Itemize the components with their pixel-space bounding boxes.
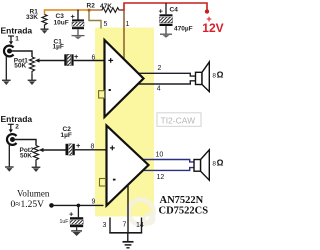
wire output pin 4	[137, 81, 196, 84]
svg-text:47K: 47K	[100, 3, 112, 10]
ground below volumen cap	[71, 227, 82, 236]
ground pot1	[28, 80, 37, 85]
wire volumen to pin 9	[52, 204, 104, 206]
U1b inverting dash	[113, 179, 116, 181]
Entrada 1 arrow	[8, 36, 14, 45]
svg-text:Entrada: Entrada	[1, 26, 33, 36]
wire C2 to pin 8	[75, 149, 107, 151]
svg-text:10: 10	[156, 152, 164, 159]
12V node dot	[205, 9, 209, 13]
U1b plus input mark	[110, 146, 115, 151]
op-amp U1a triangle	[105, 40, 144, 117]
wire output pin 10	[139, 160, 194, 162]
wire 12V red rail	[124, 3, 207, 11]
Pot1 lower stub	[31, 75, 33, 81]
resistor R1 33K zigzag	[42, 15, 47, 29]
wire jack2 to pot2	[13, 140, 37, 146]
wire output pin 2	[137, 73, 196, 76]
svg-text:+: +	[159, 7, 164, 16]
svg-text:12V: 12V	[202, 21, 223, 35]
capacitor C2 plates	[66, 144, 75, 155]
speaker SP1 driver rect	[196, 72, 203, 84]
svg-text:50K: 50K	[20, 153, 32, 160]
wire orange supply rail (R1 top to node)	[45, 10, 90, 15]
svg-text:R2: R2	[87, 3, 96, 10]
svg-text:5: 5	[104, 21, 108, 28]
svg-text:3: 3	[103, 222, 107, 229]
input jack J2	[7, 134, 17, 145]
resistor R2 47K zigzag	[101, 8, 121, 13]
Pot2 wiper arrow	[39, 148, 66, 152]
U1a inverting dot	[109, 89, 111, 91]
capacitor C3 plates	[72, 19, 84, 29]
svg-text:AN7522N: AN7522N	[160, 195, 204, 206]
U1a plus input mark	[108, 58, 113, 63]
junction node supply	[88, 9, 91, 12]
ground below C4	[160, 26, 172, 38]
svg-text:1µF: 1µF	[53, 44, 64, 51]
svg-text:CD7522CS: CD7522CS	[159, 206, 209, 217]
capacitor C4 plates	[160, 14, 173, 26]
svg-text:470µF: 470µF	[174, 26, 193, 33]
capacitor C1 plates	[64, 54, 73, 65]
svg-text:10uF: 10uF	[54, 20, 69, 27]
svg-text:1: 1	[15, 35, 19, 42]
svg-text:+: +	[74, 52, 79, 61]
svg-text:9: 9	[92, 199, 96, 206]
watermark circle logo	[129, 200, 155, 225]
wire output pin 12	[139, 168, 194, 171]
svg-text:8: 8	[91, 144, 95, 151]
op-amp U1b triangle	[107, 126, 149, 206]
svg-text:33K: 33K	[26, 14, 38, 21]
svg-text:+: +	[76, 141, 81, 150]
IC body AN7522N yellow block	[95, 28, 154, 217]
svg-text:Entrada: Entrada	[1, 114, 33, 124]
speaker SP1 cone	[202, 62, 209, 92]
svg-text:7: 7	[123, 222, 127, 229]
Pot1 wiper arrow	[35, 58, 65, 62]
svg-text:4: 4	[157, 86, 161, 93]
speaker SP2 driver rect	[194, 160, 201, 172]
capacitor C4 stub	[165, 3, 167, 14]
wire C1 to pin 6	[74, 60, 105, 62]
svg-text:2: 2	[158, 65, 162, 72]
capacitor C3 stub	[77, 10, 79, 20]
jack2 shell ground wire	[8, 144, 10, 167]
wire pin 5 jog (olive)	[89, 10, 101, 29]
svg-text:1: 1	[126, 21, 130, 28]
svg-text:1uF: 1uF	[60, 219, 69, 225]
Entrada 2 arrow	[8, 124, 14, 133]
ground stem	[127, 233, 129, 242]
wire node to R2 (tan)	[89, 9, 101, 11]
speaker SP2 cone	[201, 150, 210, 180]
Volumen node dot	[49, 203, 54, 208]
wire pin 14 to ground bus	[141, 218, 143, 234]
potentiometer Pot1 zigzag	[30, 57, 35, 75]
svg-text:TI2-CAW: TI2-CAW	[161, 115, 196, 125]
U1a feedback square	[99, 91, 105, 98]
svg-text:+: +	[69, 210, 74, 219]
jack1 shell ground wire	[5, 55, 7, 80]
svg-text:1µF: 1µF	[61, 132, 72, 139]
svg-text:Volumen: Volumen	[17, 189, 50, 199]
svg-text:Ω: Ω	[217, 158, 224, 168]
capacitor 1uF volumen plates	[70, 217, 83, 227]
U1b feedback square	[100, 179, 106, 187]
ground below R1	[41, 29, 49, 34]
svg-text:50K: 50K	[14, 63, 26, 70]
svg-text:12: 12	[157, 174, 165, 181]
watermark TI2-CAW	[157, 113, 201, 127]
wire jack1 to pot1	[10, 51, 33, 57]
ground pot2	[32, 167, 41, 172]
potentiometer Pot2 zigzag	[34, 146, 39, 163]
ground bus wire	[109, 232, 142, 234]
wire pin 1 (brown)	[123, 11, 125, 61]
junction dot volumen cap	[77, 204, 81, 208]
ground symbol (3-bar)	[123, 242, 134, 248]
stub to volumen cap	[77, 205, 79, 217]
wire R2 to 12V node (dark red)	[121, 9, 125, 11]
ground below C3	[72, 29, 85, 39]
Pot2 lower stub	[35, 163, 37, 168]
wire pin 3 to ground bus	[109, 218, 111, 234]
svg-text:2: 2	[15, 124, 19, 131]
svg-text:Ω: Ω	[217, 70, 224, 80]
svg-text:6: 6	[92, 55, 96, 62]
wire pin 7 to ground bus	[127, 184, 129, 233]
ground jack2	[5, 167, 14, 172]
svg-text:C4: C4	[170, 7, 179, 14]
svg-text:14: 14	[136, 222, 144, 229]
input jack J1	[4, 46, 14, 57]
ground jack1	[2, 80, 11, 85]
svg-text:0≈1.25V: 0≈1.25V	[11, 200, 45, 210]
